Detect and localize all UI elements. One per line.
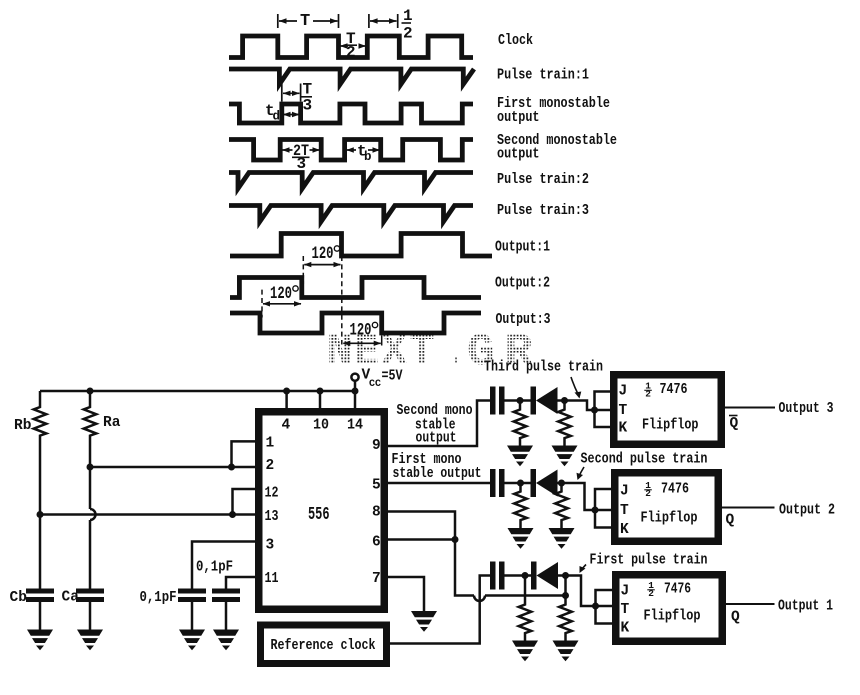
svg-text:1: 1 <box>266 436 275 452</box>
output wire stage1 <box>722 407 775 409</box>
output 1 waveform <box>230 234 492 257</box>
wire pin2 <box>90 466 256 469</box>
pulse train 3 waveform <box>229 206 473 222</box>
svg-text:Q: Q <box>730 416 739 432</box>
node Ra-pin2 <box>87 464 94 471</box>
svg-text:3: 3 <box>297 155 307 173</box>
pin labels 556 <box>265 418 381 588</box>
svg-text:8: 8 <box>372 505 381 521</box>
resistor stage1 left <box>519 401 522 408</box>
wire hop Ra over pin13 wire <box>90 509 96 520</box>
wire diode to flipflop stage1 <box>558 401 595 411</box>
svg-text:Output 3: Output 3 <box>779 401 834 417</box>
JTK bracket stage3 <box>596 590 613 624</box>
annotation: half dimension arrow top right <box>369 14 398 28</box>
capacitor Ca <box>76 589 104 603</box>
svg-text:2: 2 <box>266 458 275 474</box>
ground below Cb <box>27 630 53 651</box>
VCC bus wire <box>40 390 355 393</box>
2T/3 annotation on second monostable <box>282 147 320 152</box>
wire pin13 <box>40 513 256 516</box>
svg-text:J: J <box>621 584 630 600</box>
wire reference clock to stage3 <box>389 576 490 644</box>
wire diode to flipflop stage3 <box>558 576 596 607</box>
capacitor C stage1 <box>490 387 505 415</box>
wire pin3 to cap <box>192 542 256 589</box>
svg-text:Pulse train:2: Pulse train:2 <box>497 172 589 188</box>
node pin12-pin13 <box>229 511 236 518</box>
svg-text:b: b <box>364 150 372 164</box>
resistor stage2 left <box>519 483 522 490</box>
svg-text:2: 2 <box>403 25 413 43</box>
wire pin5 to stage2 <box>387 482 490 485</box>
svg-text:120: 120 <box>312 244 334 264</box>
svg-text:.: . <box>452 326 462 378</box>
annotation: T dimension <box>278 14 339 28</box>
waveform row labels <box>495 33 617 328</box>
svg-text:Clock: Clock <box>498 33 533 49</box>
svg-text:2: 2 <box>648 588 654 599</box>
svg-text:J: J <box>619 384 628 400</box>
wire cap 0.1pF no.2 to ground <box>225 602 228 630</box>
node Ra-VCC <box>87 388 94 395</box>
ground below pin7 <box>411 611 437 632</box>
pulse train 1 waveform <box>229 69 474 84</box>
wire pin14 top <box>354 391 357 409</box>
svg-text:Flipflop: Flipflop <box>644 609 701 625</box>
svg-text:T: T <box>621 602 630 618</box>
svg-text:T: T <box>300 12 310 31</box>
clock waveform <box>229 36 473 58</box>
svg-text:stable output: stable output <box>393 466 482 482</box>
wire to stage3 resistor node <box>485 594 566 597</box>
svg-text:14: 14 <box>347 418 363 434</box>
svg-text:0,1pF: 0,1pF <box>140 590 177 606</box>
node pin6-pin8 <box>452 536 459 543</box>
svg-text:556: 556 <box>308 505 330 525</box>
wire pin12 bracket <box>233 489 257 515</box>
capacitor C stage2 <box>490 469 505 497</box>
svg-text:Second pulse train: Second pulse train <box>581 452 708 468</box>
pulse train 2 waveform <box>229 173 473 189</box>
svg-text:output: output <box>497 110 540 126</box>
svg-text:120: 120 <box>270 284 292 304</box>
wire diode to flipflop stage2 <box>558 483 596 510</box>
svg-text:6: 6 <box>372 535 381 551</box>
wire pin6/8 node down <box>455 540 474 596</box>
svg-text:11: 11 <box>265 571 279 587</box>
wire Ca to ground <box>89 602 92 630</box>
svg-text:12: 12 <box>265 486 279 502</box>
wire hop over ref clock line <box>474 596 485 602</box>
svg-text:CC: CC <box>369 379 381 390</box>
svg-text:First pulse train: First pulse train <box>590 553 708 569</box>
wire cap to diode stage2 <box>505 482 531 485</box>
wire pin7 to ground <box>387 577 424 611</box>
svg-text:120: 120 <box>350 321 372 341</box>
svg-text:Output:1: Output:1 <box>495 240 550 256</box>
second monostable waveform <box>229 140 473 161</box>
IC 556 timer box <box>259 412 385 610</box>
wire pin6 <box>387 538 455 541</box>
wire pin1 bracket <box>232 441 257 467</box>
svg-text:K: K <box>619 421 628 437</box>
mono output labels <box>392 403 482 482</box>
wire pin11 to cap <box>226 577 256 589</box>
wire Rb bottom to Cb <box>39 438 42 589</box>
ground below cap2 <box>213 630 239 651</box>
svg-text:=5V: =5V <box>382 369 403 385</box>
t_b annotation <box>346 147 380 152</box>
resistor stage1 right <box>563 401 566 408</box>
svg-text:10: 10 <box>313 418 329 434</box>
resistor stage2 right <box>560 483 563 490</box>
svg-text:Flipflop: Flipflop <box>642 418 699 434</box>
svg-text:7476: 7476 <box>661 482 689 498</box>
svg-text:Q: Q <box>726 513 735 529</box>
wire pin8 <box>387 512 455 540</box>
output 2 waveform <box>230 278 481 298</box>
wire cap to diode stage1 <box>505 399 531 402</box>
svg-text:Cb: Cb <box>10 590 28 606</box>
svg-text:4: 4 <box>282 418 291 434</box>
output 3 waveform <box>230 313 481 333</box>
capacitor C stage3 <box>490 562 505 590</box>
watermark NEXT.GR <box>327 326 534 378</box>
svg-text:5: 5 <box>372 478 381 494</box>
JTK bracket stage1 <box>595 392 611 428</box>
node dots stage3 <box>522 572 600 610</box>
reference clock box <box>261 625 387 664</box>
svg-text:d: d <box>273 110 281 124</box>
svg-text:K: K <box>621 621 630 637</box>
ground below cap1 <box>179 630 205 651</box>
wire pin4 top <box>285 391 288 409</box>
flipflop U2 7476 box <box>615 473 719 542</box>
T/3 annotation on first monostable <box>282 84 301 102</box>
wire Ra to Ca <box>89 520 92 589</box>
svg-text:7476: 7476 <box>660 382 688 398</box>
node pin4 <box>283 388 290 395</box>
flipflop U1 7476 box <box>614 375 722 445</box>
svg-text:Reference clock: Reference clock <box>271 638 376 654</box>
svg-text:Pulse train:3: Pulse train:3 <box>497 203 589 219</box>
svg-text:2: 2 <box>645 488 651 499</box>
svg-text:0,1pF: 0,1pF <box>196 560 233 576</box>
node pin10 <box>317 388 324 395</box>
capacitor Cb <box>26 589 54 603</box>
svg-text:Flipflop: Flipflop <box>641 511 698 527</box>
svg-text:13: 13 <box>265 509 279 525</box>
svg-text:K: K <box>620 522 629 538</box>
svg-text:T: T <box>620 503 629 519</box>
wire cap to diode stage3 <box>505 574 532 577</box>
resistor stage3 right <box>564 576 567 603</box>
resistor Ra <box>84 405 97 438</box>
output wire stage3 <box>723 603 775 605</box>
resistor stage3 left <box>524 576 527 603</box>
svg-text:3: 3 <box>266 538 275 554</box>
svg-text:Output:3: Output:3 <box>496 312 551 328</box>
svg-text:3: 3 <box>303 97 313 115</box>
svg-text:2: 2 <box>645 389 651 400</box>
output wire stage2 <box>719 507 775 509</box>
wire Cb to ground <box>39 602 42 630</box>
wire Ra bottom <box>89 438 92 510</box>
svg-text:Ra: Ra <box>103 415 121 431</box>
svg-text:output: output <box>416 431 457 447</box>
svg-text:7: 7 <box>372 571 381 587</box>
svg-text:7476: 7476 <box>664 582 691 598</box>
wire Ra top <box>89 391 92 405</box>
VCC supply symbol <box>351 374 358 381</box>
junction dots <box>37 388 459 544</box>
wire pin10 top <box>319 391 322 409</box>
svg-text:9: 9 <box>372 438 381 454</box>
first monostable waveform <box>229 104 473 123</box>
node VCC <box>352 388 359 395</box>
diode D3 <box>531 562 558 590</box>
svg-text:output: output <box>497 147 540 163</box>
resistor Rb <box>34 405 47 438</box>
svg-text:T: T <box>619 403 628 419</box>
svg-text:Rb: Rb <box>14 418 32 434</box>
diode D1 <box>531 387 558 415</box>
capacitor 0.1pF no.2 <box>212 589 240 603</box>
svg-text:Output 1: Output 1 <box>778 599 833 615</box>
capacitor 0.1pF no.1 <box>178 589 206 603</box>
node Rb-pin13 <box>37 511 44 518</box>
svg-text:J: J <box>620 484 629 500</box>
JTK bracket stage2 <box>595 489 612 528</box>
ground below Ca <box>77 630 103 651</box>
wire Rb top <box>39 391 42 405</box>
wire pin9 to stage1 <box>387 401 490 447</box>
wire cap 0.1pF no.1 to ground <box>191 602 194 630</box>
svg-text:Output 2: Output 2 <box>779 503 835 519</box>
node pin1-pin2 <box>228 464 235 471</box>
svg-text:Third pulse train: Third pulse train <box>484 360 603 376</box>
node dots stage2 <box>517 480 599 514</box>
diode D2 <box>531 469 558 497</box>
svg-text:Pulse train:1: Pulse train:1 <box>497 68 589 84</box>
flipflop U3 7476 box <box>616 575 723 642</box>
svg-text:Ca: Ca <box>62 590 80 606</box>
svg-text:Q: Q <box>731 610 740 626</box>
node dots stage1 <box>517 397 599 414</box>
svg-text:Output:2: Output:2 <box>495 276 550 292</box>
